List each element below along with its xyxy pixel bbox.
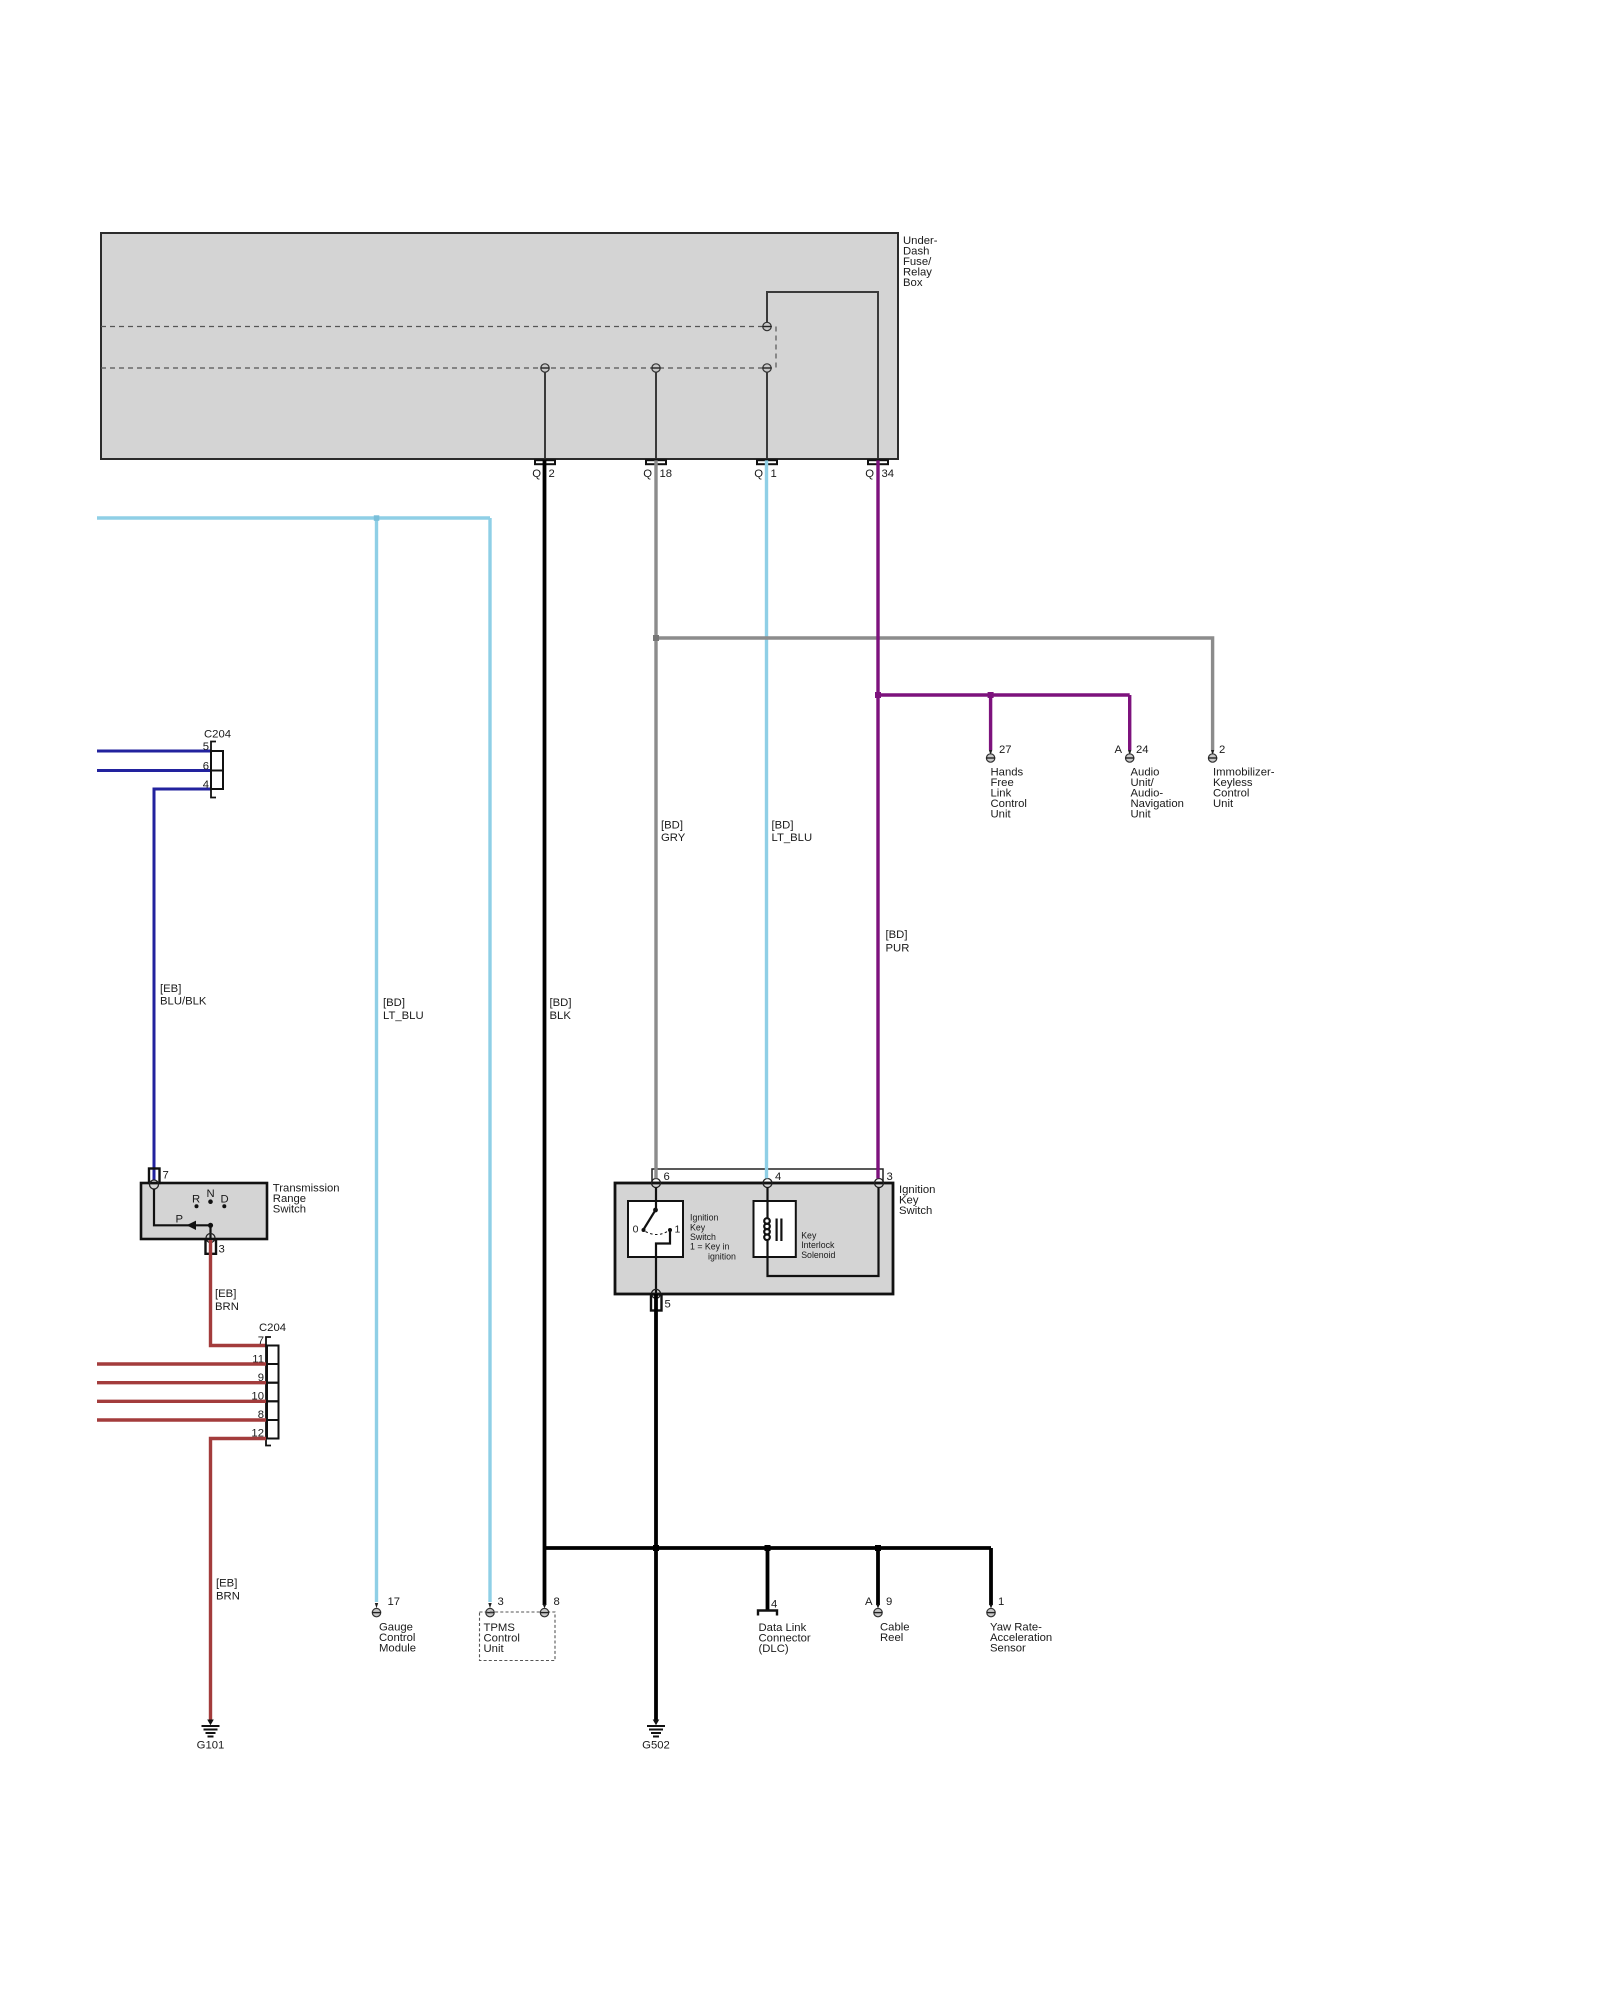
internal wire to pin 3 — [209, 1225, 211, 1239]
junction dot — [208, 1223, 213, 1228]
node circle pin 3 — [206, 1234, 215, 1243]
svg-text:D: D — [221, 1194, 229, 1206]
svg-text:[BD]: [BD] — [661, 820, 683, 832]
label Data Link Connector (DLC) — [759, 1622, 811, 1655]
svg-text:P: P — [176, 1214, 184, 1226]
svg-text:Ignition: Ignition — [690, 1213, 718, 1223]
terminal 3 TPMS Control Unit — [486, 1596, 504, 1617]
svg-text:4: 4 — [775, 1171, 781, 1183]
svg-text:Q: Q — [865, 468, 874, 480]
node circle pin 4 — [763, 1179, 772, 1188]
junction PUR at main wire — [875, 692, 881, 698]
wire RED pin 9 — [97, 1381, 266, 1384]
terminal 8 — [540, 1596, 560, 1617]
svg-text:7: 7 — [258, 1335, 264, 1347]
fuse node circle on line2 above Q1 — [763, 364, 772, 372]
svg-text:BRN: BRN — [216, 1591, 240, 1603]
wire RED pin 8 — [97, 1418, 266, 1421]
svg-text:Interlock: Interlock — [801, 1240, 835, 1250]
wire LT_BLU drop to TPMS — [488, 518, 491, 1602]
fuse node circle on line2 above Q18 — [652, 364, 661, 372]
terminal A 24 Audio Unit — [1114, 744, 1148, 762]
terminal 4 Data Link Connector — [758, 1599, 777, 1616]
junction bus at cable reel — [875, 1545, 881, 1551]
node circle pin 6 — [652, 1179, 661, 1188]
svg-text:[BD]: [BD] — [886, 929, 908, 941]
label Yaw Rate-Acceleration Sensor — [990, 1622, 1052, 1655]
internal wire to Q1 — [766, 373, 768, 459]
wire BLK from Q2 down to pin 8 — [543, 460, 547, 1605]
wire BRN from pin 3 to C204 pin 7 — [211, 1240, 267, 1346]
svg-text:Sensor: Sensor — [990, 1643, 1026, 1655]
label [BD] LT_BLU (right) — [772, 820, 813, 845]
wire PUR through connector bar — [876, 1168, 879, 1178]
svg-text:5: 5 — [665, 1299, 671, 1311]
switch pivot — [653, 1208, 658, 1213]
svg-text:Unit: Unit — [1213, 798, 1234, 810]
label [BD] PUR — [886, 929, 910, 955]
label [EB] BLU/BLK — [160, 983, 207, 1008]
svg-text:Module: Module — [379, 1643, 416, 1655]
switch lever — [644, 1210, 656, 1230]
svg-text:0: 0 — [633, 1224, 639, 1236]
wire drop to DLC — [766, 1548, 770, 1611]
connector C204 (lower) — [251, 1322, 286, 1446]
svg-text:1 = Key in: 1 = Key in — [690, 1242, 729, 1252]
wire drop to cable reel — [876, 1548, 880, 1605]
terminal Q2 — [532, 460, 555, 480]
wire drop to yaw sensor — [989, 1548, 993, 1605]
internal wiper wire — [154, 1189, 211, 1225]
wire RED pin 11 — [97, 1362, 266, 1365]
junction LT_BLU — [374, 515, 380, 521]
fuse node circle on line1 above Q1 — [763, 322, 772, 330]
node circle pin 7 — [150, 1180, 159, 1189]
wiper arrow — [187, 1221, 197, 1230]
dashed internal bus line 1 — [101, 326, 776, 328]
svg-text:9: 9 — [886, 1596, 892, 1608]
wire LT_BLU from Q1 down to ignition key switch pin 4 — [765, 460, 768, 1178]
wire from coil to pin 3 — [768, 1188, 879, 1277]
label Gauge Control Module — [379, 1622, 416, 1655]
svg-text:Key: Key — [690, 1222, 706, 1232]
svg-text:LT_BLU: LT_BLU — [772, 832, 813, 844]
svg-text:8: 8 — [554, 1596, 560, 1608]
internal wire to Q18 — [655, 373, 657, 459]
label Immobilizer-Keyless Control Unit — [1213, 767, 1275, 811]
label [EB] BRN (upper) — [215, 1288, 239, 1313]
wire LT_BLU drop to gauge control module — [375, 518, 378, 1602]
svg-text:3: 3 — [498, 1596, 504, 1608]
svg-text:BLU/BLK: BLU/BLK — [160, 996, 207, 1008]
wire BRN pin 12 down to G101 — [211, 1439, 267, 1721]
svg-text:Switch: Switch — [273, 1204, 306, 1216]
label Under-Dash Fuse/Relay Box — [903, 235, 938, 289]
terminal Q1 — [754, 460, 777, 480]
svg-text:Q: Q — [643, 468, 652, 480]
svg-text:[EB]: [EB] — [216, 1578, 237, 1590]
terminal 7 — [149, 1169, 160, 1184]
svg-text:A: A — [1114, 744, 1122, 756]
svg-text:G502: G502 — [642, 1740, 670, 1752]
wire tip at 27 — [989, 750, 992, 755]
svg-text:6: 6 — [664, 1171, 670, 1183]
solenoid coil — [764, 1218, 770, 1240]
svg-text:[EB]: [EB] — [215, 1288, 236, 1300]
svg-text:2: 2 — [549, 468, 555, 480]
label Ignition Key Switch — [899, 1184, 935, 1217]
wire RED pin 10 — [97, 1400, 266, 1403]
svg-text:Box: Box — [903, 277, 923, 289]
key switch contact sub-box — [628, 1201, 683, 1257]
svg-text:[BD]: [BD] — [772, 820, 794, 832]
svg-text:6: 6 — [203, 761, 209, 773]
wire tip at cable reel — [876, 1604, 880, 1608]
svg-text:3: 3 — [887, 1171, 893, 1183]
svg-text:C204: C204 — [259, 1322, 286, 1334]
solenoid core bars — [776, 1219, 778, 1242]
label Hands Free Link Control Unit — [991, 767, 1027, 821]
Transmission Range Switch — [141, 1169, 267, 1256]
svg-text:5: 5 — [203, 741, 209, 753]
dashed travel arc — [646, 1232, 668, 1235]
node circle pin 3 — [875, 1179, 884, 1188]
svg-text:Reel: Reel — [880, 1632, 903, 1644]
junction bus at DLC — [765, 1545, 771, 1551]
svg-text:Unit: Unit — [1131, 809, 1152, 821]
svg-text:2: 2 — [1219, 744, 1225, 756]
wire from contact 1 to pin 5 — [656, 1230, 670, 1294]
wire BLU/BLK pin5 into C204 — [97, 750, 211, 753]
svg-text:C204: C204 — [204, 729, 231, 741]
wire BLU/BLK pin6 into C204 — [97, 769, 211, 772]
svg-text:Unit: Unit — [484, 1643, 505, 1655]
Under-Dash Fuse/Relay Box — [101, 233, 898, 459]
ground G101 — [197, 1720, 225, 1752]
svg-text:18: 18 — [660, 468, 673, 480]
node circle pin 5 — [652, 1289, 661, 1298]
svg-text:ignition: ignition — [708, 1251, 736, 1261]
svg-text:G101: G101 — [197, 1740, 225, 1752]
terminal 2 Immobilizer-Keyless Control Unit — [1208, 744, 1225, 762]
wire tip at yaw sensor — [989, 1604, 993, 1608]
svg-text:1: 1 — [675, 1224, 681, 1236]
label Key Interlock Solenoid — [801, 1231, 835, 1260]
label Audio Unit/Audio-Navigation Unit — [1131, 767, 1184, 821]
ground G502 — [642, 1720, 670, 1752]
svg-text:34: 34 — [882, 468, 895, 480]
wire from pin 4 to coil — [766, 1188, 768, 1220]
wire PUR branch to hands free and audio — [878, 695, 1130, 750]
wire tip at TPMS 3 — [488, 1603, 491, 1608]
label TPMS Control Unit — [484, 1622, 520, 1655]
terminal 27 Hands Free Link Control Unit — [986, 744, 1011, 762]
svg-text:[EB]: [EB] — [160, 983, 181, 995]
svg-text:Switch: Switch — [690, 1232, 716, 1242]
internal wire to Q2 — [544, 373, 546, 459]
junction PUR at hands free branch — [988, 692, 994, 698]
svg-text:R: R — [192, 1194, 200, 1206]
Ignition Key Switch box — [615, 1183, 893, 1294]
wire tip at A24 — [1128, 750, 1131, 755]
wire GRY branch to immobilizer — [656, 638, 1213, 750]
svg-text:Q: Q — [754, 468, 763, 480]
wire LT_BLU horizontal feed — [97, 516, 490, 519]
terminal 17 Gauge Control Module — [372, 1596, 400, 1617]
svg-text:7: 7 — [163, 1170, 169, 1182]
svg-text:PUR: PUR — [886, 943, 910, 955]
svg-text:BLK: BLK — [550, 1010, 572, 1022]
svg-text:BRN: BRN — [215, 1301, 239, 1313]
wire tip at 2 — [1211, 750, 1214, 755]
label Cable Reel — [880, 1622, 910, 1645]
connector C204 (upper) — [203, 729, 231, 798]
wire LT_BLU through connector bar — [765, 1168, 768, 1178]
terminal 3 — [206, 1239, 217, 1254]
ground bus — [545, 1546, 992, 1550]
terminal Q18 — [643, 460, 672, 480]
terminal A 9 Cable Reel — [865, 1596, 892, 1617]
wire PUR from Q34 down to ignition key switch pin 3 — [876, 460, 879, 1178]
svg-text:17: 17 — [388, 1596, 401, 1608]
svg-text:4: 4 — [771, 1599, 777, 1611]
svg-text:1: 1 — [998, 1596, 1004, 1608]
Ignition Key Switch connector bar — [652, 1169, 893, 1183]
svg-text:27: 27 — [999, 744, 1012, 756]
svg-text:Key: Key — [801, 1231, 817, 1241]
wire from pin 6 to pivot — [655, 1188, 657, 1211]
wire GRY from Q18 down to ignition key switch pin 6 — [654, 460, 657, 1178]
label [EB] BRN (lower) — [216, 1578, 240, 1603]
svg-text:4: 4 — [203, 779, 209, 791]
terminal 1 Yaw Rate-Acceleration Sensor — [987, 1596, 1005, 1617]
wire BLU/BLK pin4 from C204 down to transmission range switch — [154, 789, 211, 1181]
label [BD] GRY — [661, 820, 686, 845]
wire tip at pin 8 — [543, 1604, 547, 1608]
svg-text:Solenoid: Solenoid — [801, 1250, 835, 1260]
svg-text:[BD]: [BD] — [550, 997, 572, 1009]
wire tip at 17 — [375, 1603, 378, 1608]
wire BLK from pin 5 to ground G502 — [654, 1294, 658, 1721]
label [BD] LT_BLU (left) — [383, 997, 424, 1022]
TPMS dashed box — [480, 1612, 556, 1661]
svg-text:Unit: Unit — [991, 809, 1012, 821]
wire GRY through connector bar — [654, 1168, 657, 1178]
svg-text:Switch: Switch — [899, 1205, 932, 1217]
fuse node circle on line2 above Q2 — [541, 364, 550, 372]
svg-text:3: 3 — [219, 1244, 225, 1256]
label [BD] BLK — [550, 997, 572, 1022]
svg-text:GRY: GRY — [661, 832, 686, 844]
terminal Q34 — [865, 460, 894, 480]
dashed internal vertical link — [775, 327, 777, 369]
key interlock solenoid sub-box — [754, 1201, 796, 1257]
svg-text:(DLC): (DLC) — [759, 1643, 789, 1655]
svg-text:LT_BLU: LT_BLU — [383, 1010, 424, 1022]
svg-text:N: N — [207, 1188, 215, 1200]
label Transmission Range Switch — [273, 1183, 340, 1216]
svg-text:24: 24 — [1136, 744, 1149, 756]
svg-text:A: A — [865, 1596, 873, 1608]
svg-text:1: 1 — [771, 468, 777, 480]
junction GRY — [653, 635, 659, 641]
internal wire to Q34 — [767, 292, 878, 458]
label Ignition Key Switch 1 = Key in ignition — [690, 1213, 736, 1262]
svg-text:Q: Q — [532, 468, 541, 480]
svg-text:[BD]: [BD] — [383, 997, 405, 1009]
dashed internal bus line 2 — [101, 367, 776, 369]
terminal 5 — [651, 1295, 662, 1311]
junction bus at G502 — [653, 1545, 659, 1551]
